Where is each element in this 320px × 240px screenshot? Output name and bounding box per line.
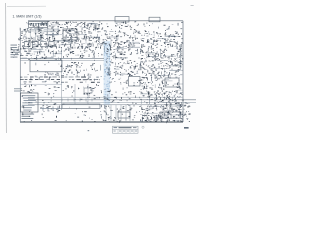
cluster under box (unreadable components) [44, 73, 59, 76]
labels row band y77-83 left [20, 77, 60, 83]
wire: mid bus A [20, 57, 104, 59]
base speckle wash (unreadable components) [21, 21, 183, 123]
title text: 1. MAIN UNIT (1/3) [13, 14, 42, 18]
IC box right area [165, 78, 179, 87]
IC box right of cyan [129, 77, 141, 87]
wires: right area interconnect [140, 33, 183, 104]
IC box x63 y29 (hatched) [63, 29, 77, 40]
connector pin labels (left margin) [11, 45, 20, 58]
connector pin list rows y48-58 [20, 48, 32, 58]
cluster right3b (unreadable components) [166, 77, 181, 90]
labels row band y77-83 mid [61, 77, 100, 83]
cluster top-right-mid2 (unreadable components) [101, 30, 141, 42]
component box top U?? [149, 17, 160, 22]
stray mark [88, 130, 90, 131]
cluster ladder (unreadable components) [41, 105, 61, 113]
scan edge top line [7, 5, 46, 7]
wire: vertical drop x75 [74, 84, 76, 104]
faint mark top right [191, 4, 194, 7]
cluster top-mid (unreadable components) [60, 21, 100, 35]
wires: bottom-right interconnect [143, 106, 183, 121]
cluster mid-right2 (unreadable components) [106, 62, 139, 76]
wire: bus junction ticks [62, 98, 92, 101]
transformer box bottom-right [160, 112, 180, 118]
cluster right4 (unreadable components) [140, 90, 184, 105]
cluster right upper (unreadable components) [142, 30, 182, 38]
component box top U? [115, 17, 129, 22]
wire: vertical trunk x62 [61, 48, 63, 110]
cluster mid dense (unreadable components) [61, 34, 101, 49]
wire: bottom drops to border [106, 105, 130, 122]
wires: mid-right interconnect [101, 31, 140, 74]
cluster mid sparse3 (unreadable components) [63, 90, 100, 100]
highlighted net (cyan bar) [104, 41, 112, 105]
cluster bottom-right dense (unreadable components) [140, 104, 183, 123]
wires: top area interconnect [29, 23, 100, 48]
connector block J1 [29, 22, 48, 28]
wire: right inner tick line [179, 44, 182, 70]
wire: lower bus 1 [28, 96, 183, 98]
wire: ladder run with junctions [40, 106, 62, 110]
cluster top-far-right (unreadable components) [144, 22, 183, 30]
cluster right (unreadable components) [141, 38, 184, 49]
cluster left sparse (unreadable components) [25, 83, 60, 90]
connector text left (unreadable components) [11, 48, 20, 58]
shield box (empty) [30, 60, 62, 72]
cluster mid sparse2 (unreadable components) [65, 84, 99, 89]
cluster top-left (unreadable components) [27, 21, 60, 34]
cluster mid components (unreadable components) [60, 62, 81, 76]
cluster above ic (unreadable components) [21, 89, 33, 93]
cluster top-right-mid (unreadable components) [101, 21, 139, 30]
cluster left edge (unreadable components) [18, 28, 27, 47]
wire: vertical drop x88 [87, 84, 89, 104]
cluster mid-right (unreadable components) [100, 41, 139, 50]
relay box bottom [118, 112, 130, 118]
wire: vertical runs upper-left [30, 30, 53, 42]
cluster drops (unreadable components) [100, 104, 135, 121]
wire: mid bus B [20, 60, 104, 62]
title block table [113, 126, 145, 133]
scan edge vertical line [5, 3, 8, 133]
IC U901 with pin rows [21, 93, 39, 112]
wire: horizontal run y31 [22, 30, 60, 32]
cluster midleft sparse (unreadable components) [42, 92, 56, 104]
cluster mid small (unreadable components) [127, 49, 140, 62]
cluster right2 (unreadable components) [140, 62, 183, 78]
wire: left mid horizontal y84 [20, 83, 62, 85]
cluster right3 (unreadable components) [140, 76, 164, 90]
cluster vert chain (unreadable components) [106, 48, 126, 63]
cluster left mid-upper (unreadable components) [19, 34, 60, 49]
wire: lower bus 3 [28, 101, 196, 103]
component row boxes upper-left [25, 42, 55, 47]
cluster mid rows (unreadable components) [61, 48, 99, 58]
component box mid pocket [84, 88, 92, 93]
wire: schematic left border [19, 28, 21, 122]
wire: lower bus 4 [28, 104, 183, 106]
wire: schematic right border [182, 21, 184, 122]
cluster cyanside (unreadable components) [111, 78, 128, 90]
net labels below IC [22, 114, 35, 119]
thin cable box [62, 104, 100, 108]
cluster mid pocket (unreadable components) [78, 87, 96, 98]
cluster left lines (unreadable components) [34, 50, 59, 60]
wire: schematic top border [28, 20, 183, 22]
cluster right overflow (unreadable components) [183, 103, 190, 122]
wire: schematic bottom border [20, 121, 183, 123]
svg-text:1. MAIN UNIT (1/3): 1. MAIN UNIT (1/3) [13, 14, 42, 18]
cluster mid-right sparse (unreadable components) [103, 91, 134, 104]
page number [184, 127, 189, 128]
cluster right rows (unreadable components) [140, 48, 183, 63]
connector J1 pin ticks [30, 23, 47, 26]
cluster bottom sparse (unreadable components) [23, 112, 80, 117]
net labels above IC [14, 88, 22, 91]
cluster mid sparse (unreadable components) [80, 63, 98, 77]
wire: lower bus 2 [28, 99, 196, 101]
wires: left mid interconnect [22, 34, 63, 60]
